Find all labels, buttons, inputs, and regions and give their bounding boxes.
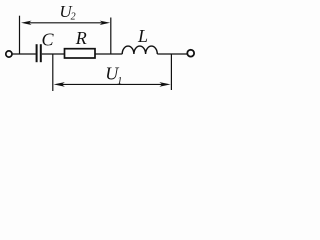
terminal left [6, 51, 12, 57]
arrowhead U1 right [159, 82, 170, 87]
svg-text:C: C [42, 30, 55, 50]
extension line U2 right [110, 18, 112, 55]
extension line U1 left [52, 54, 54, 91]
dimension line U2 [26, 22, 105, 24]
svg-text:2: 2 [71, 12, 76, 23]
extension line U1 right [170, 54, 172, 90]
wire resistor-to-inductor [95, 53, 122, 55]
dimension line U1 [59, 83, 165, 85]
capacitor C [37, 44, 41, 62]
arrowhead U2 right [100, 21, 111, 25]
extension line U2 left [19, 16, 21, 54]
inductor L [122, 46, 157, 54]
svg-text:R: R [75, 28, 87, 48]
background [0, 0, 201, 93]
arrowhead U1 left [54, 82, 65, 87]
resistor R [65, 49, 96, 58]
terminal right [187, 50, 194, 57]
svg-text:1: 1 [117, 76, 122, 87]
wire inductor-to-terminal [157, 53, 187, 55]
wire left-to-capacitor [12, 53, 36, 55]
arrowhead U2 left [21, 21, 32, 25]
wire capacitor-to-resistor [42, 53, 65, 55]
svg-text:L: L [137, 26, 148, 46]
